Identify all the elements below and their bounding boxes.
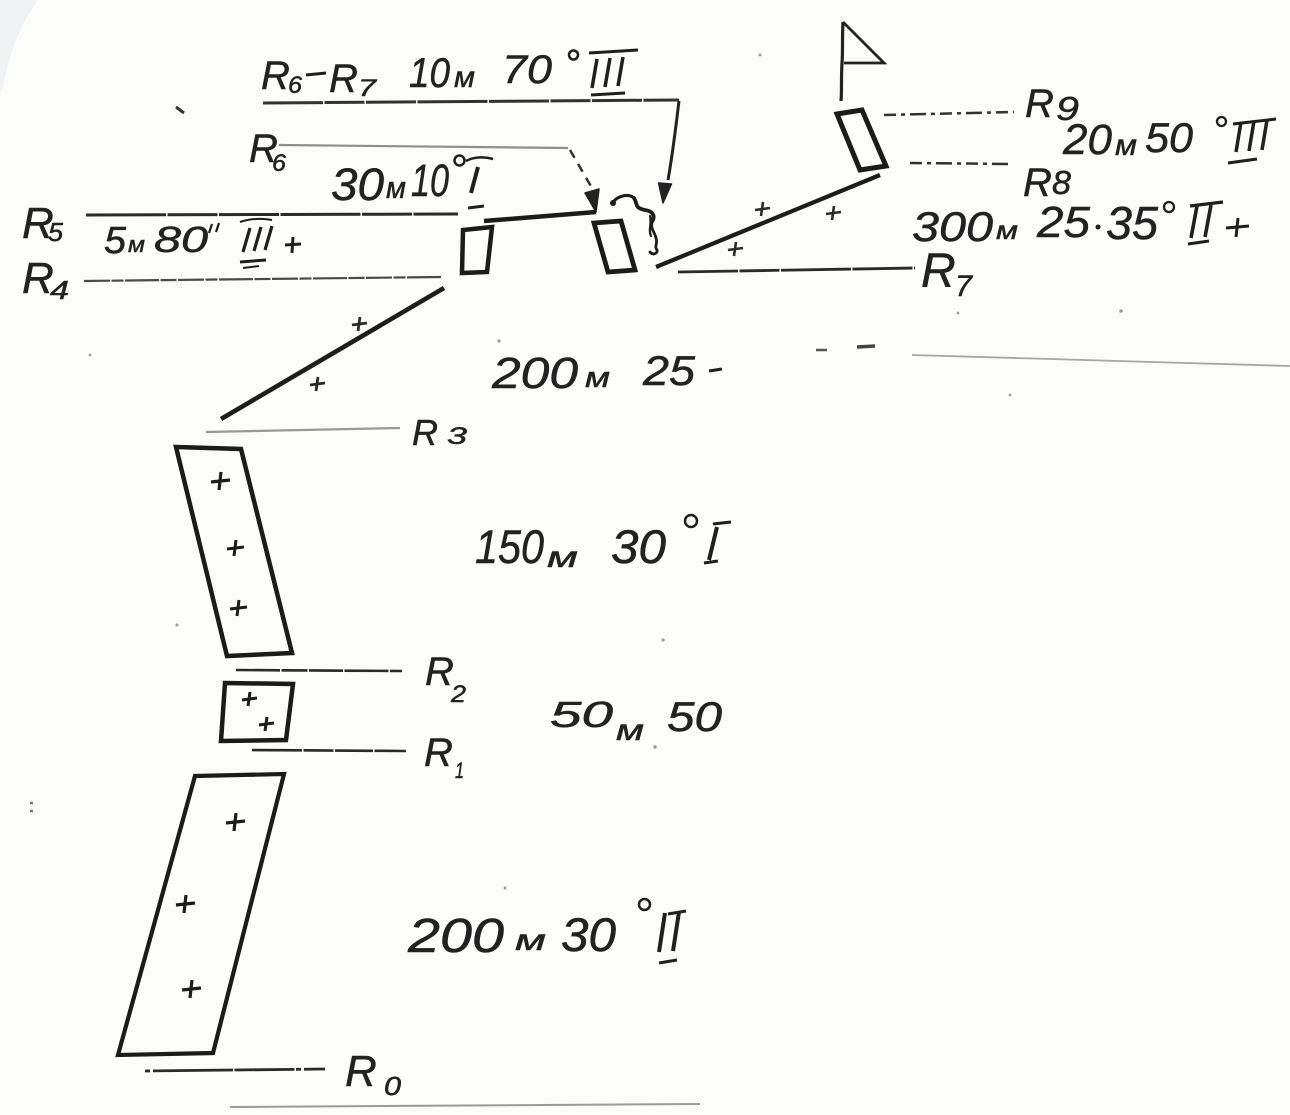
svg-text:4: 4 [50, 275, 69, 305]
svg-text:м: м [1115, 129, 1137, 162]
svg-text:300: 300 [912, 203, 994, 250]
svg-text:35: 35 [1106, 197, 1158, 249]
svg-text:R: R [921, 245, 956, 298]
svg-text:7: 7 [358, 75, 378, 102]
svg-text:20: 20 [1062, 116, 1112, 164]
svg-text:6: 6 [272, 150, 287, 177]
svg-text:200: 200 [491, 349, 579, 398]
svg-text:200: 200 [407, 910, 505, 963]
svg-text:0: 0 [384, 1071, 402, 1101]
svg-text:30: 30 [561, 908, 616, 961]
svg-text:8: 8 [1052, 164, 1072, 201]
svg-text:7: 7 [955, 270, 973, 303]
svg-text:80: 80 [154, 219, 208, 260]
svg-text:6: 6 [288, 72, 303, 99]
svg-text:30: 30 [611, 520, 666, 573]
svg-text:м: м [515, 924, 546, 957]
svg-text:R: R [22, 254, 54, 303]
svg-text:R: R [261, 54, 290, 98]
svg-text:150: 150 [475, 520, 544, 573]
svg-text:R: R [425, 650, 454, 694]
svg-text:25: 25 [1036, 198, 1091, 247]
svg-text:м: м [386, 170, 406, 205]
svg-text:R: R [412, 412, 438, 453]
svg-text:R: R [424, 731, 453, 775]
svg-text:1: 1 [455, 758, 464, 783]
svg-text:10: 10 [409, 49, 451, 96]
svg-text:25: 25 [642, 347, 696, 394]
svg-text:м: м [996, 215, 1018, 245]
svg-text:R: R [329, 57, 358, 101]
svg-text:5: 5 [48, 217, 64, 247]
svg-text:м: м [547, 541, 578, 574]
svg-text:30: 30 [331, 159, 384, 210]
svg-text:50: 50 [667, 693, 723, 740]
svg-text:3: 3 [447, 423, 468, 450]
svg-text:70: 70 [502, 48, 552, 92]
svg-text:50: 50 [550, 694, 613, 735]
svg-text:м: м [128, 232, 145, 257]
svg-text:R: R [1025, 82, 1054, 126]
svg-text:м: м [585, 362, 610, 394]
svg-text:м: м [454, 61, 475, 94]
svg-text:10: 10 [411, 155, 449, 206]
svg-text:5: 5 [104, 220, 127, 262]
svg-text:м: м [616, 714, 644, 747]
svg-text:2: 2 [450, 681, 466, 708]
svg-text:R: R [345, 1047, 377, 1096]
svg-text:50: 50 [1145, 114, 1194, 161]
